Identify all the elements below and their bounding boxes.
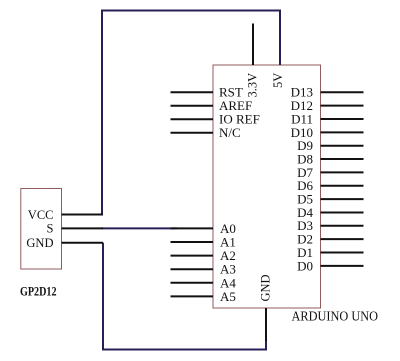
svg-text:ARDUINO UNO: ARDUINO UNO xyxy=(292,309,379,324)
pin stub U1 IO REF xyxy=(171,118,214,120)
svg-text:N/C: N/C xyxy=(219,125,241,140)
pin stub U1 D6 xyxy=(321,185,364,187)
pin stub U1 3.3V xyxy=(252,24,254,66)
pin stub U1 D11 xyxy=(321,118,364,120)
pin stub U1 D10 xyxy=(321,131,364,133)
wire 5V rail: GP2D12 VCC up and over to Arduino 5V xyxy=(102,11,280,215)
pin stub U1 D4 xyxy=(321,211,364,213)
pin stub U2 S xyxy=(62,227,104,229)
pin stub U1 A3 xyxy=(171,268,214,270)
pin stub U1 N/C xyxy=(171,132,214,134)
svg-text:D0: D0 xyxy=(297,258,313,273)
pin stub U1 A4 xyxy=(171,282,214,284)
pin stub U1 A1 xyxy=(171,241,214,243)
pin stub U1 D7 xyxy=(321,171,364,173)
pin stub U2 GND xyxy=(62,242,104,244)
pin stub U1 A5 xyxy=(171,295,214,297)
pin stub U1 GND (bottom) xyxy=(265,308,267,341)
svg-text:5V: 5V xyxy=(271,73,285,88)
svg-text:3.3V: 3.3V xyxy=(246,73,260,98)
wire ground: GP2D12 GND down, across, up to Arduino GND xyxy=(103,243,266,350)
pin stub U1 D1 xyxy=(321,252,364,254)
pin stub U1 A2 xyxy=(171,255,214,257)
svg-text:VCC: VCC xyxy=(28,208,54,222)
IC U2 GP2D12 body xyxy=(21,189,62,270)
svg-text:GND: GND xyxy=(259,274,273,301)
svg-text:A5: A5 xyxy=(220,289,236,304)
pin stub U1 AREF xyxy=(171,105,214,107)
pin stub U1 A0 xyxy=(171,227,214,229)
pin stub U1 D2 xyxy=(321,238,364,240)
pin stub U1 D12 xyxy=(321,105,364,107)
wire signal: GP2D12 S to Arduino A0 xyxy=(102,227,177,229)
pin stub U2 VCC xyxy=(62,214,104,216)
pin stub U1 D13 xyxy=(321,91,364,93)
IC U1 ARDUINO UNO body xyxy=(213,65,321,308)
pin stub U1 D9 xyxy=(321,145,364,147)
pin stub U1 D5 xyxy=(321,198,364,200)
pin stub U1 RST xyxy=(171,91,214,93)
pin stub U1 D8 xyxy=(321,158,364,160)
svg-text:GND: GND xyxy=(26,236,53,250)
svg-text:GP2D12: GP2D12 xyxy=(20,284,57,298)
pin stub U1 D0 xyxy=(321,265,364,267)
svg-text:S: S xyxy=(47,222,54,236)
pin stub U1 D3 xyxy=(321,225,364,227)
